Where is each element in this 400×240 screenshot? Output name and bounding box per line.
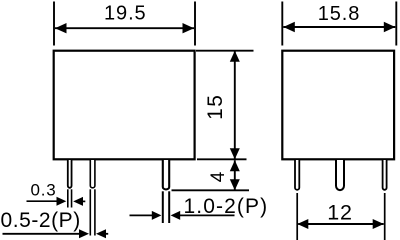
svg-text:15.8: 15.8 (318, 3, 361, 25)
svg-text:12: 12 (327, 201, 353, 225)
svg-text:0.5-2(P): 0.5-2(P) (1, 209, 81, 232)
svg-text:19.5: 19.5 (104, 3, 147, 25)
svg-text:4: 4 (208, 171, 229, 182)
svg-text:15: 15 (204, 94, 227, 120)
svg-text:0.3: 0.3 (31, 181, 57, 200)
